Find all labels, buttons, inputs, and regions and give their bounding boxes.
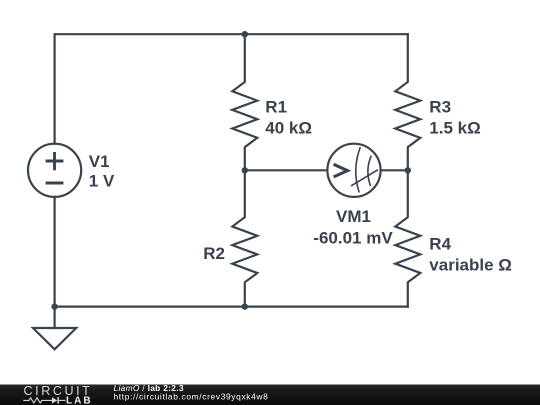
svg-text:R2: R2 [203, 244, 225, 263]
svg-text:http://circuitlab.com/crev39yq: http://circuitlab.com/crev39yqxk4w8 [114, 391, 269, 401]
svg-text:R3: R3 [429, 97, 451, 116]
svg-text:40 kΩ: 40 kΩ [265, 118, 312, 137]
svg-text:1.5 kΩ: 1.5 kΩ [429, 118, 480, 137]
svg-text:LAB: LAB [66, 395, 93, 405]
svg-text:VM1: VM1 [336, 207, 371, 226]
svg-text:variable Ω: variable Ω [429, 256, 512, 275]
svg-text:-60.01 mV: -60.01 mV [313, 228, 393, 247]
svg-text:R4: R4 [429, 234, 451, 253]
svg-text:1 V: 1 V [89, 171, 115, 190]
svg-text:V1: V1 [89, 152, 110, 171]
svg-text:R1: R1 [265, 97, 287, 116]
